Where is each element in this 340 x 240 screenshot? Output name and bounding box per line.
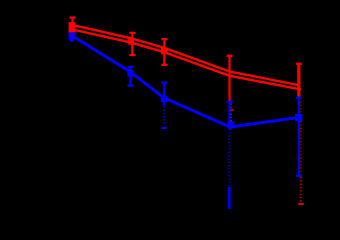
blue dotted error bar c4 (series B2 lower tail) bbox=[228, 132, 230, 186]
blue marker c2 bbox=[127, 70, 133, 77]
red dotted error bar c4 (series R2 lower tail) bbox=[229, 104, 234, 128]
red error bar c5 bbox=[296, 64, 302, 97]
blue marker c5 bbox=[295, 114, 302, 121]
red line R1 (upper) bbox=[73, 25, 299, 85]
blue error bar c4 lower solid segment bbox=[228, 187, 231, 209]
red marker c2 bbox=[128, 38, 135, 45]
blue dotted error bar c3 (series B2 lower tail) bbox=[161, 106, 167, 128]
blue marker c3 bbox=[161, 96, 168, 103]
red dotted error bar c5 (series R2 lower tail) bbox=[298, 98, 304, 204]
blue error bar c4 upper bbox=[227, 102, 233, 130]
blue error bar c5 bbox=[296, 98, 302, 176]
red marker c1 R1 bbox=[69, 22, 76, 29]
blue error bar c1 bbox=[70, 33, 75, 40]
red error bar c1 bbox=[70, 18, 76, 34]
red line R2 (lower) bbox=[73, 30, 302, 90]
red marker c1 R2 bbox=[69, 26, 76, 32]
blue line B bbox=[73, 36, 299, 127]
blue marker c4 bbox=[228, 121, 235, 128]
red error bar c3 bbox=[161, 39, 167, 65]
red error bar c2 bbox=[129, 33, 135, 55]
blue error bar c2 bbox=[128, 67, 134, 86]
blue marker c1 (two overlapping) bbox=[69, 33, 76, 40]
red marker c3 bbox=[161, 48, 168, 55]
red error bar c4 bbox=[227, 56, 233, 101]
blue error bar c3 bbox=[161, 83, 167, 106]
